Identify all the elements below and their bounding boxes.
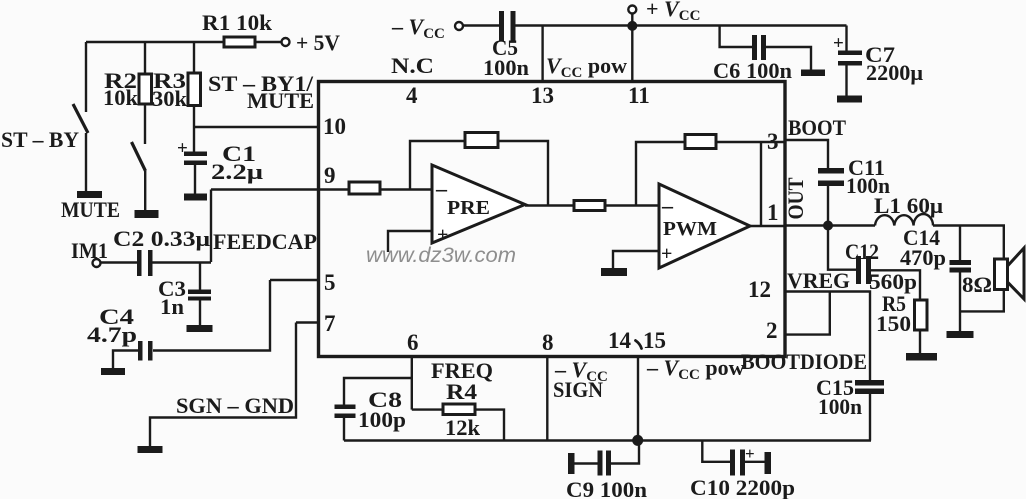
svg-text:PRE: PRE bbox=[447, 197, 490, 219]
speaker 8ohm bbox=[995, 248, 1025, 299]
terminal -Vcc bbox=[455, 22, 463, 30]
svg-text:8: 8 bbox=[542, 330, 554, 355]
wire L1 to speaker bbox=[933, 226, 1004, 260]
wire R3 top lead bbox=[193, 42, 195, 73]
wire pin 3 BOOT bbox=[784, 140, 828, 168]
svg-text:100n: 100n bbox=[818, 394, 862, 419]
wire pin 14,15 lead bbox=[637, 355, 639, 441]
label C4 4.7p bbox=[87, 304, 137, 347]
label ST-BY1/MUTE bbox=[208, 71, 314, 113]
op-amp PWM bbox=[659, 184, 750, 268]
svg-text:12: 12 bbox=[748, 277, 771, 302]
op-amp PRE bbox=[432, 165, 525, 246]
ground ST-BY bbox=[77, 191, 102, 198]
label FREQ bbox=[431, 358, 493, 383]
wire C3 drop bbox=[199, 263, 201, 290]
capacitor C11 bbox=[818, 168, 844, 222]
svg-text:4: 4 bbox=[406, 83, 418, 108]
wire PRE feedback bbox=[410, 141, 548, 206]
capacitor C4 bbox=[138, 341, 153, 361]
wire C14 top lead bbox=[959, 226, 961, 261]
wire pin 5 bbox=[270, 279, 318, 281]
capacitor C5 bbox=[499, 11, 516, 41]
wire pin 2 bbox=[784, 292, 830, 335]
wire PRE out to PWM bbox=[525, 204, 574, 206]
wire PWM feedback to output bbox=[760, 142, 762, 226]
ground C6 bbox=[801, 70, 825, 77]
wire FEEDCAP vertical bbox=[210, 190, 212, 263]
label SGN-GND bbox=[176, 393, 294, 418]
wire Vcc rail bbox=[516, 24, 847, 26]
inductor L1 bbox=[875, 214, 933, 226]
node pin11 junction bbox=[627, 21, 637, 31]
svg-text:15: 15 bbox=[643, 328, 666, 353]
svg-text:+: + bbox=[437, 224, 448, 246]
svg-text:–: – bbox=[661, 193, 674, 218]
ground C3 bbox=[187, 325, 213, 332]
wire R4 to rail bbox=[475, 410, 504, 441]
label C7 2200u bbox=[865, 42, 924, 85]
svg-text:8Ω: 8Ω bbox=[962, 272, 992, 297]
node OUT junction bbox=[823, 221, 833, 231]
label pin 9 bbox=[324, 163, 336, 188]
label 8ohm bbox=[962, 272, 992, 297]
svg-text:5: 5 bbox=[324, 270, 336, 295]
svg-text:2200μ: 2200μ bbox=[866, 60, 924, 85]
capacitor C14 bbox=[950, 260, 972, 331]
capacitor C9 bbox=[568, 441, 639, 476]
label +Vcc bbox=[646, 0, 700, 24]
label pin 3 bbox=[767, 129, 779, 154]
svg-text:IM1: IM1 bbox=[71, 238, 108, 263]
label pin 11 bbox=[628, 83, 650, 108]
svg-text:FEEDCAP: FEEDCAP bbox=[213, 229, 317, 254]
label pin 10 bbox=[323, 114, 346, 139]
svg-text:C10 2200p: C10 2200p bbox=[690, 475, 795, 499]
wire MUTE switch lead bbox=[144, 171, 146, 210]
svg-text:–: – bbox=[435, 176, 448, 201]
svg-text:BOOT: BOOT bbox=[788, 115, 846, 140]
wire R5 bottom lead bbox=[919, 330, 921, 353]
svg-text:BOOTDIODE: BOOTDIODE bbox=[741, 349, 867, 374]
svg-text:1n: 1n bbox=[160, 294, 184, 319]
capacitor C6 bbox=[752, 35, 766, 60]
label pin 12 bbox=[748, 277, 771, 302]
svg-text:100p: 100p bbox=[358, 407, 406, 432]
wire ST-BY bottom lead bbox=[85, 133, 87, 191]
svg-text:+: + bbox=[661, 243, 672, 265]
resistor interstage bbox=[574, 201, 605, 211]
resistor PRE feedback bbox=[465, 133, 498, 148]
svg-text:PWM: PWM bbox=[663, 218, 717, 240]
svg-text:MUTE: MUTE bbox=[247, 88, 314, 113]
terminal +5V bbox=[282, 38, 290, 46]
ground PWM plus bbox=[601, 268, 627, 276]
label C5 100n bbox=[483, 35, 529, 80]
wire C6 branch left bbox=[720, 26, 752, 48]
wire PWM plus input bbox=[613, 251, 659, 268]
svg-text:SIGN: SIGN bbox=[553, 377, 603, 402]
label IM1 bbox=[71, 238, 108, 263]
wire IM1 to C2 bbox=[101, 261, 138, 263]
terminal IM1 bbox=[93, 259, 101, 267]
wire PRE plus input bbox=[388, 231, 432, 252]
svg-text:R1 10k: R1 10k bbox=[202, 10, 273, 35]
wire C8 top branch bbox=[344, 378, 412, 405]
svg-text:3: 3 bbox=[767, 129, 779, 154]
wire C4 to ground bbox=[113, 351, 138, 369]
svg-text:6: 6 bbox=[407, 330, 419, 355]
label C10 2200p bbox=[690, 475, 795, 499]
svg-text:SGN – GND: SGN – GND bbox=[176, 393, 294, 418]
wire C7 top lead bbox=[845, 26, 847, 51]
svg-text:VCC pow: VCC pow bbox=[546, 53, 627, 81]
svg-text:C12: C12 bbox=[845, 239, 879, 264]
label pin 1 bbox=[767, 200, 779, 225]
ground C4 bbox=[101, 368, 125, 375]
resistor R3 bbox=[188, 73, 201, 106]
ground R5 bbox=[906, 353, 937, 361]
wire OUT to C12 bbox=[828, 226, 856, 270]
label C10 plus bbox=[745, 444, 755, 463]
wire C12 to R5 bbox=[871, 270, 920, 300]
svg-text:OUT: OUT bbox=[783, 177, 808, 219]
svg-text:14: 14 bbox=[608, 328, 632, 353]
terminal +Vcc bbox=[628, 6, 636, 14]
switch ST-BY blade bbox=[73, 104, 88, 133]
resistor R1 bbox=[224, 37, 255, 47]
svg-text:150: 150 bbox=[876, 311, 911, 336]
svg-text:R4: R4 bbox=[446, 379, 477, 404]
label C7 plus bbox=[833, 33, 844, 54]
capacitor C3 bbox=[188, 290, 211, 326]
svg-text:30k: 30k bbox=[152, 86, 188, 111]
resistor pin9 input bbox=[349, 182, 380, 194]
capacitor C7 bbox=[838, 51, 862, 96]
svg-text:ST – BY: ST – BY bbox=[1, 127, 79, 152]
label R2 10k bbox=[103, 68, 139, 110]
label C11 100n bbox=[846, 155, 890, 198]
svg-text:N.C: N.C bbox=[391, 53, 434, 78]
label pin 2 bbox=[766, 318, 778, 343]
wire -Vcc to C5 bbox=[463, 24, 499, 26]
svg-text:C6 100n: C6 100n bbox=[713, 58, 792, 83]
label C8 100p bbox=[358, 387, 406, 432]
label ST-BY bbox=[1, 127, 79, 152]
svg-text:1: 1 bbox=[767, 200, 779, 225]
wire +Vcc stub bbox=[631, 14, 633, 26]
label C15 100n bbox=[816, 375, 862, 419]
wire R3 to C1 bbox=[193, 105, 195, 152]
label C6 100n bbox=[713, 58, 792, 83]
label BOOTDIODE bbox=[741, 349, 867, 374]
svg-text:L1 60μ: L1 60μ bbox=[874, 193, 944, 218]
label R1 10k bbox=[202, 10, 273, 35]
wire C6 branch right bbox=[766, 47, 811, 70]
wire pin 10 bbox=[194, 126, 318, 128]
label Vcc pow bbox=[546, 53, 627, 81]
label L1 60u bbox=[874, 193, 944, 218]
label -Vcc SIGN bbox=[553, 357, 608, 402]
resistor R4 bbox=[443, 404, 475, 415]
label pin 14,15 bbox=[608, 328, 666, 353]
wire speaker return bbox=[960, 290, 1004, 312]
wire SGN-GND bbox=[150, 323, 296, 447]
wire R2 bottom lead bbox=[144, 104, 146, 144]
node -Vcc pow junction bbox=[632, 435, 643, 446]
label C14 470p bbox=[900, 225, 946, 270]
svg-text:9: 9 bbox=[324, 163, 336, 188]
svg-text:MUTE: MUTE bbox=[61, 197, 120, 222]
svg-text:VREG: VREG bbox=[787, 268, 850, 293]
resistor R5 bbox=[915, 300, 928, 330]
ground SGN-GND bbox=[138, 446, 163, 453]
capacitor C2 bbox=[137, 250, 153, 276]
wire ST-BY top lead bbox=[85, 42, 87, 112]
wire R2 top lead bbox=[144, 42, 146, 74]
svg-text:+: + bbox=[177, 138, 188, 159]
capacitor C12 bbox=[856, 256, 871, 284]
wire pin 8 lead bbox=[546, 355, 548, 441]
wire interstage to PWM minus bbox=[605, 204, 659, 206]
wire pin 12 VREG bbox=[784, 292, 870, 381]
wire pin 9 bbox=[211, 188, 349, 190]
label C1 plus bbox=[177, 138, 188, 159]
label N.C bbox=[391, 53, 434, 78]
svg-text:+: + bbox=[745, 444, 755, 463]
wire pin 11 lead bbox=[631, 26, 633, 81]
wire OUT pin 1 bbox=[784, 224, 875, 226]
wire bottom -Vcc rail bbox=[344, 439, 871, 441]
svg-text:13: 13 bbox=[531, 83, 554, 108]
label pin 13 bbox=[531, 83, 554, 108]
svg-text:12k: 12k bbox=[445, 415, 481, 440]
svg-text:www.dz3w.com: www.dz3w.com bbox=[366, 244, 516, 267]
svg-text:470p: 470p bbox=[900, 245, 946, 270]
label pin 8 bbox=[542, 330, 554, 355]
capacitor C1 bbox=[184, 152, 207, 194]
label pin 7 bbox=[324, 311, 336, 336]
label BOOT bbox=[788, 115, 846, 140]
wire pin 13 lead bbox=[541, 26, 543, 82]
ground C7 bbox=[837, 96, 862, 103]
ground MUTE bbox=[135, 210, 159, 218]
label C12 560p bbox=[845, 239, 917, 294]
resistor PWM feedback bbox=[685, 135, 716, 149]
label pin 5 bbox=[324, 270, 336, 295]
wire PWM output bbox=[750, 225, 784, 227]
svg-text:4.7p: 4.7p bbox=[87, 322, 137, 347]
label R5 150 bbox=[876, 291, 911, 336]
capacitor C10 bbox=[702, 441, 771, 476]
label VREG bbox=[787, 268, 850, 293]
wire pin 7 bbox=[296, 321, 318, 323]
svg-text:+: + bbox=[833, 33, 844, 54]
label OUT vertical bbox=[783, 177, 808, 219]
IC box U1 bbox=[319, 82, 786, 357]
watermark bbox=[366, 244, 516, 267]
wire pin5 to C4 bbox=[153, 280, 270, 351]
wire C2 to FEEDCAP node bbox=[153, 261, 212, 263]
wire pin 6 lead bbox=[411, 355, 413, 410]
capacitor C15 bbox=[855, 380, 884, 441]
label C3 1n bbox=[158, 276, 186, 319]
label pin 6 bbox=[407, 330, 419, 355]
resistor R2 bbox=[139, 74, 152, 104]
label R4 12k bbox=[445, 379, 481, 440]
svg-text:2: 2 bbox=[766, 318, 778, 343]
svg-text:7: 7 bbox=[324, 311, 336, 336]
label FEEDCAP bbox=[213, 229, 317, 254]
label -Vcc top bbox=[391, 14, 445, 42]
wire +5V rail bbox=[86, 41, 281, 43]
capacitor C8 bbox=[335, 405, 356, 441]
svg-text:11: 11 bbox=[628, 83, 650, 108]
svg-text:2.2μ: 2.2μ bbox=[211, 159, 264, 184]
ground C1 bbox=[184, 194, 207, 201]
ground C14 bbox=[947, 331, 974, 338]
svg-text:10k: 10k bbox=[103, 85, 139, 110]
label pin 4 bbox=[406, 83, 418, 108]
label +5V bbox=[296, 30, 340, 55]
svg-text:C2 0.33μ: C2 0.33μ bbox=[113, 226, 211, 251]
label -Vcc pow bbox=[646, 355, 745, 383]
label R3 30k bbox=[152, 68, 188, 111]
wire pin 9 inside bbox=[380, 188, 432, 190]
switch MUTE blade bbox=[132, 142, 146, 171]
svg-text:100n: 100n bbox=[483, 55, 529, 80]
svg-text:+ 5V: + 5V bbox=[296, 30, 340, 55]
label C1 2.2u bbox=[211, 141, 264, 184]
label MUTE (switch) bbox=[61, 197, 120, 222]
svg-text:C9 100n: C9 100n bbox=[566, 477, 647, 499]
wire PWM feedback bbox=[636, 142, 784, 206]
wire pin6 to R4 bbox=[412, 408, 443, 410]
label C2 0.33u bbox=[113, 226, 211, 251]
label C9 100n bbox=[566, 477, 647, 499]
svg-text:10: 10 bbox=[323, 114, 346, 139]
